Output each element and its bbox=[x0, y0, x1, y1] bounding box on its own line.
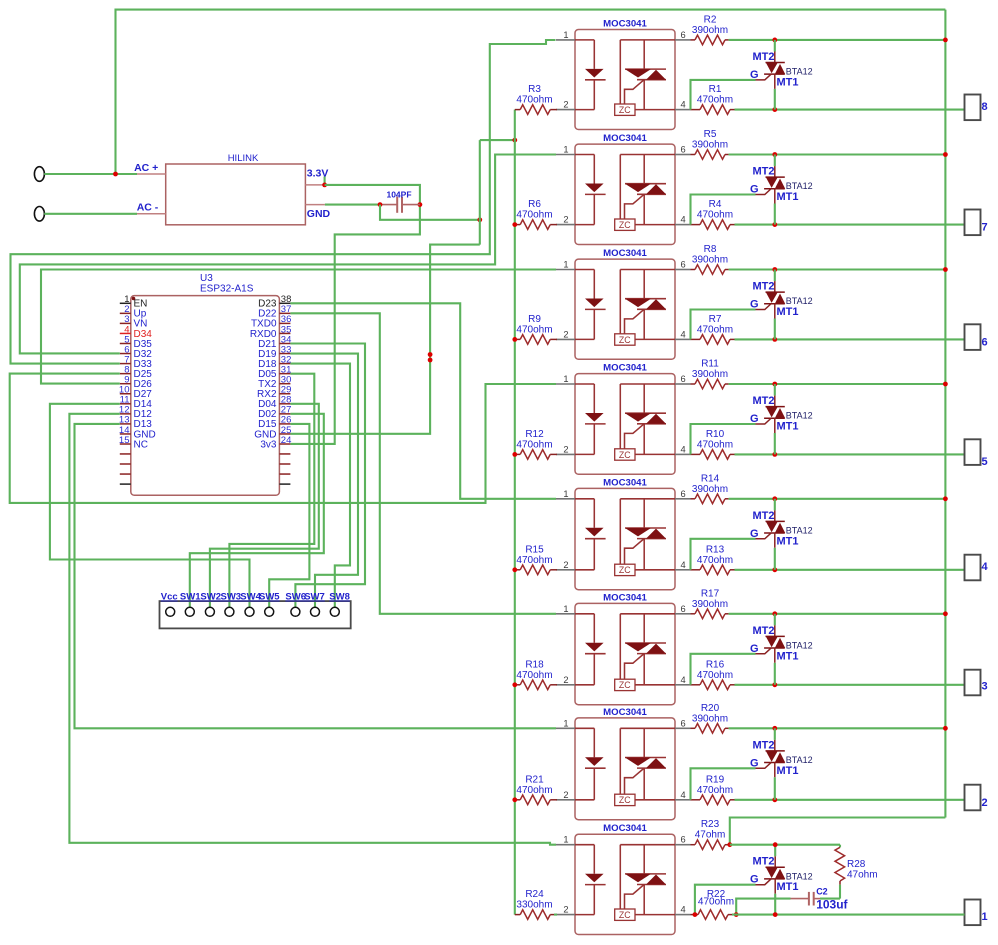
resistor R10 470ohm (channel 5) bbox=[691, 429, 735, 459]
junction GND riser tap bbox=[477, 217, 482, 222]
wire gate to pin4 node channel 1 bbox=[695, 885, 756, 915]
svg-text:ZC: ZC bbox=[619, 450, 631, 460]
junction AC bus tap (channel 4) bbox=[943, 496, 948, 501]
pin 13 D13 bbox=[120, 423, 131, 425]
svg-text:G: G bbox=[750, 528, 759, 540]
svg-text:G: G bbox=[750, 69, 759, 81]
triac Q8 BTA12 (channel 8) bbox=[750, 40, 813, 110]
svg-text:MOC3041: MOC3041 bbox=[603, 823, 647, 834]
junction AC+ node bbox=[113, 172, 118, 177]
svg-text:MT1: MT1 bbox=[777, 306, 799, 318]
svg-text:470ohm: 470ohm bbox=[697, 210, 733, 221]
resistor R17 390ohm (channel 3) bbox=[691, 588, 729, 618]
wire AC+ input to HILINK bbox=[44, 173, 137, 175]
wire net D22 (pin37 to channel 3) bbox=[290, 313, 556, 613]
wire gate to pin4 node (channel 3) bbox=[691, 654, 756, 685]
wire gate to pin4 node (channel 4) bbox=[691, 539, 756, 570]
svg-text:MT2: MT2 bbox=[753, 856, 775, 868]
wire gate to pin4 node (channel 7) bbox=[691, 195, 756, 225]
wire net D02 (pin27 to SW1) bbox=[190, 414, 324, 608]
junction GND bus tap (channel 2) bbox=[512, 797, 517, 802]
svg-text:470ohm: 470ohm bbox=[516, 95, 552, 106]
resistor R22 470ohm (channel 1) bbox=[691, 889, 735, 919]
svg-text:R12: R12 bbox=[525, 429, 544, 440]
svg-text:470ohm: 470ohm bbox=[516, 324, 552, 335]
svg-text:ZC: ZC bbox=[619, 795, 631, 805]
junction GND bus tap (channel 5) bbox=[512, 452, 517, 457]
pin 37 D22 bbox=[279, 312, 290, 314]
pin 26 D15 bbox=[279, 423, 290, 425]
svg-text:4: 4 bbox=[681, 329, 686, 339]
pin 34 D21 bbox=[279, 343, 290, 345]
svg-text:R1: R1 bbox=[709, 84, 722, 95]
svg-text:6: 6 bbox=[681, 489, 686, 499]
svg-text:330ohm: 330ohm bbox=[516, 900, 552, 911]
resistor R28 47ohm (snubber) bbox=[835, 845, 878, 899]
svg-text:MOC3041: MOC3041 bbox=[603, 592, 647, 603]
svg-text:BTA12: BTA12 bbox=[786, 181, 813, 191]
triac Q7 BTA12 (channel 7) bbox=[750, 155, 813, 225]
svg-text:MT1: MT1 bbox=[777, 535, 799, 547]
pin 8 D25 bbox=[120, 373, 131, 375]
svg-text:1: 1 bbox=[563, 374, 568, 384]
svg-text:4: 4 bbox=[681, 790, 686, 800]
svg-text:R10: R10 bbox=[706, 429, 725, 440]
wire GND bus (left vertical) bbox=[514, 110, 516, 915]
output connector J2 bbox=[965, 785, 988, 811]
svg-text:AC +: AC + bbox=[134, 162, 158, 174]
svg-text:5: 5 bbox=[982, 456, 988, 468]
output connector J8 bbox=[965, 95, 988, 121]
svg-text:470ohm: 470ohm bbox=[516, 439, 552, 450]
wire net D13 (pin13 to channel 2) bbox=[75, 424, 557, 728]
wire gate to pin4 node (channel 6) bbox=[691, 310, 756, 340]
svg-text:2: 2 bbox=[563, 675, 568, 685]
svg-text:R21: R21 bbox=[525, 774, 544, 785]
pin 25 GND bbox=[279, 433, 290, 435]
wire pin4 row to output (channel 6) bbox=[735, 338, 965, 340]
resistor R8 390ohm (channel 6) bbox=[691, 244, 729, 274]
svg-text:2: 2 bbox=[563, 790, 568, 800]
junction MT2 node (channel 2) bbox=[772, 726, 777, 731]
svg-text:R18: R18 bbox=[525, 659, 544, 670]
svg-text:470ohm: 470ohm bbox=[697, 670, 733, 681]
svg-text:G: G bbox=[750, 757, 759, 769]
node SW4 bbox=[245, 607, 254, 616]
svg-text:4: 4 bbox=[681, 675, 686, 685]
svg-text:6: 6 bbox=[681, 604, 686, 614]
svg-text:SW7: SW7 bbox=[304, 592, 325, 603]
junction GND bus tap (channel 6) bbox=[512, 337, 517, 342]
svg-text:MT2: MT2 bbox=[753, 625, 775, 637]
svg-text:MT2: MT2 bbox=[753, 395, 775, 407]
wire MOC pin6 row to AC bus (channel 6) bbox=[729, 268, 946, 270]
input connector P1 (AC line) bbox=[34, 167, 44, 182]
pin 27 D02 bbox=[279, 413, 290, 415]
wire net D18 (pin32 to SW8) bbox=[290, 364, 350, 608]
svg-text:103uf: 103uf bbox=[816, 898, 848, 912]
svg-text:1: 1 bbox=[563, 260, 568, 270]
svg-text:R16: R16 bbox=[706, 659, 725, 670]
svg-text:U3: U3 bbox=[200, 273, 213, 284]
svg-text:1: 1 bbox=[563, 604, 568, 614]
output connector J3 bbox=[965, 670, 988, 696]
svg-text:MT1: MT1 bbox=[777, 765, 799, 777]
svg-text:4: 4 bbox=[681, 100, 686, 110]
svg-text:R2: R2 bbox=[704, 14, 717, 25]
resistor R7 470ohm (channel 6) bbox=[691, 314, 735, 344]
junction MT1 node (channel 4) bbox=[772, 567, 777, 572]
junction GND bus tap (channel 3) bbox=[512, 682, 517, 687]
junction GND bus tap (channel 4) bbox=[512, 567, 517, 572]
svg-text:R8: R8 bbox=[704, 244, 717, 255]
junction AC bus tap (channel 3) bbox=[943, 611, 948, 616]
junction GND bus tap (channel 7) bbox=[512, 222, 517, 227]
svg-text:6: 6 bbox=[681, 835, 686, 845]
junction 3.3V output bbox=[322, 183, 327, 188]
svg-text:MT1: MT1 bbox=[777, 650, 799, 662]
svg-text:6: 6 bbox=[681, 145, 686, 155]
svg-text:R15: R15 bbox=[525, 544, 544, 555]
pin 3 VN bbox=[120, 322, 131, 324]
junction capacitor right node bbox=[418, 202, 423, 207]
wire gate to pin4 node (channel 8) bbox=[691, 80, 756, 110]
svg-text:G: G bbox=[750, 413, 759, 425]
pin 32 D18 bbox=[279, 363, 290, 365]
unused pin stub right bbox=[279, 473, 290, 475]
svg-text:6: 6 bbox=[681, 374, 686, 384]
pin 1 EN bbox=[120, 302, 131, 304]
svg-text:6: 6 bbox=[681, 30, 686, 40]
svg-text:390ohm: 390ohm bbox=[692, 369, 728, 380]
svg-text:BTA12: BTA12 bbox=[786, 296, 813, 306]
pin 4 D34 bbox=[120, 332, 131, 334]
node SW2 bbox=[205, 607, 214, 616]
wire net D32 (pin6 to channel 7) bbox=[20, 155, 556, 354]
svg-text:6: 6 bbox=[982, 336, 988, 348]
node SW3 bbox=[225, 607, 234, 616]
junction MT2 node (channel 3) bbox=[772, 611, 777, 616]
svg-text:470ohm: 470ohm bbox=[516, 670, 552, 681]
pin 33 D19 bbox=[279, 353, 290, 355]
node SW8 bbox=[330, 607, 339, 616]
svg-text:SW5: SW5 bbox=[259, 592, 280, 603]
svg-text:470ohm: 470ohm bbox=[697, 324, 733, 335]
optocoupler U6 MOC3041 (channel 6) bbox=[556, 248, 691, 359]
svg-text:1: 1 bbox=[563, 30, 568, 40]
svg-text:BTA12: BTA12 bbox=[786, 526, 813, 536]
svg-text:3v3: 3v3 bbox=[260, 439, 277, 450]
triac Q3 BTA12 (channel 3) bbox=[750, 614, 813, 685]
wire pin4 row to output (channel 4) bbox=[735, 569, 965, 571]
svg-text:390ohm: 390ohm bbox=[692, 255, 728, 266]
junction GND bus feed bbox=[512, 138, 517, 143]
junction MT1 node (channel 8) bbox=[772, 107, 777, 112]
unused pin stub right bbox=[279, 453, 290, 455]
wire gate to pin4 node (channel 2) bbox=[691, 768, 756, 800]
wire AC+ up to top rail bbox=[116, 10, 946, 174]
pin 15 NC bbox=[120, 443, 131, 445]
output connector J1 bbox=[965, 900, 988, 926]
svg-text:2: 2 bbox=[563, 444, 568, 454]
svg-text:MT1: MT1 bbox=[777, 881, 799, 893]
pin 7 D33 bbox=[120, 363, 131, 365]
junction gate tap channel 1 bbox=[693, 912, 698, 917]
svg-text:R28: R28 bbox=[847, 859, 866, 870]
unused pin stub left bbox=[120, 453, 131, 455]
wire AC bus jog to channel 1 bbox=[730, 818, 946, 845]
wire channel1 pin6 row bbox=[730, 844, 840, 846]
pin 12 D12 bbox=[120, 413, 131, 415]
wire net D23 (pin38 to channel 4) bbox=[290, 303, 556, 499]
optocoupler U4 MOC3041 (channel 4) bbox=[556, 477, 691, 589]
pin 10 D27 bbox=[120, 393, 131, 395]
svg-text:470ohm: 470ohm bbox=[516, 785, 552, 796]
pin 36 TXD0 bbox=[279, 322, 290, 324]
svg-text:470ohm: 470ohm bbox=[697, 785, 733, 796]
svg-text:470ohm: 470ohm bbox=[697, 95, 733, 106]
wire pin4 row to output (channel 3) bbox=[735, 684, 965, 686]
optocoupler U8 MOC3041 (channel 8) bbox=[556, 18, 691, 129]
junction MT1 node (channel 7) bbox=[772, 222, 777, 227]
pin 11 D14 bbox=[120, 403, 131, 405]
output connector J7 bbox=[965, 210, 988, 236]
pin 5 D35 bbox=[120, 343, 131, 345]
svg-text:4: 4 bbox=[681, 560, 686, 570]
output connector J5 bbox=[965, 439, 988, 468]
pin 30 TX2 bbox=[279, 383, 290, 385]
svg-text:R14: R14 bbox=[701, 473, 720, 484]
svg-text:MT1: MT1 bbox=[777, 191, 799, 203]
optocoupler U2 MOC3041 (channel 2) bbox=[556, 707, 691, 820]
wire 3.3V to capacitor right bbox=[325, 185, 420, 205]
switch connector SW header bbox=[160, 592, 351, 629]
junction GND segment joint B bbox=[428, 358, 433, 363]
svg-text:ZC: ZC bbox=[619, 105, 631, 115]
svg-text:2: 2 bbox=[982, 797, 988, 809]
junction C2 tap bbox=[734, 912, 739, 917]
wire net D26 (pin9 to channel 6) bbox=[41, 270, 556, 384]
resistor R20 390ohm (channel 2) bbox=[691, 703, 729, 733]
wire MOC pin6 row to AC bus (channel 7) bbox=[729, 153, 946, 155]
svg-text:R19: R19 bbox=[706, 774, 725, 785]
wire pin4 row to output 1 bbox=[732, 914, 965, 916]
resistor R9 470ohm (channel 6) bbox=[515, 314, 557, 344]
svg-text:BTA12: BTA12 bbox=[786, 411, 813, 421]
svg-text:MT1: MT1 bbox=[777, 421, 799, 433]
pin 24 3v3 bbox=[279, 443, 290, 445]
junction AC bus tap (channel 2) bbox=[943, 726, 948, 731]
svg-text:BTA12: BTA12 bbox=[786, 641, 813, 651]
junction capacitor left node bbox=[378, 202, 383, 207]
wire GND riser to GND bus bbox=[480, 139, 515, 141]
unused pin stub left bbox=[120, 483, 131, 485]
resistor R14 390ohm (channel 4) bbox=[691, 473, 729, 503]
pin 14 GND bbox=[120, 433, 131, 435]
junction AC bus tap (channel 7) bbox=[943, 152, 948, 157]
wire net D05 (pin31 to SW3) bbox=[229, 374, 314, 608]
unused pin stub left bbox=[120, 463, 131, 465]
svg-text:MT1: MT1 bbox=[777, 76, 799, 88]
svg-text:390ohm: 390ohm bbox=[692, 484, 728, 495]
svg-text:4: 4 bbox=[681, 215, 686, 225]
svg-text:R7: R7 bbox=[709, 314, 722, 325]
svg-text:390ohm: 390ohm bbox=[692, 140, 728, 151]
junction MT2 node (channel 5) bbox=[772, 382, 777, 387]
svg-text:1: 1 bbox=[563, 145, 568, 155]
microcontroller U3 ESP32-A1S bbox=[119, 273, 291, 495]
svg-text:MT2: MT2 bbox=[753, 739, 775, 751]
svg-text:BTA12: BTA12 bbox=[786, 67, 813, 77]
svg-text:MOC3041: MOC3041 bbox=[603, 363, 647, 374]
wire AC bus (right vertical) bbox=[944, 10, 946, 818]
svg-text:MOC3041: MOC3041 bbox=[603, 707, 647, 718]
resistor R19 470ohm (channel 2) bbox=[691, 774, 735, 804]
resistor R2 390ohm (channel 8) bbox=[691, 14, 729, 44]
svg-text:390ohm: 390ohm bbox=[692, 713, 728, 724]
junction MT1 node channel 1 bbox=[773, 912, 778, 917]
svg-text:G: G bbox=[750, 184, 759, 196]
wire C2 to pin4 node bbox=[736, 899, 790, 915]
wire net D14 (pin11 to SW4) bbox=[50, 404, 250, 608]
resistor R24 330ohm (channel 1) bbox=[515, 889, 557, 919]
svg-text:4: 4 bbox=[982, 561, 989, 573]
svg-text:4: 4 bbox=[681, 905, 686, 915]
pin 28 D04 bbox=[279, 403, 290, 405]
svg-text:2: 2 bbox=[563, 100, 568, 110]
wire net D19 (pin33 to SW7) bbox=[290, 354, 358, 608]
wire MOC pin6 row to AC bus (channel 4) bbox=[729, 498, 946, 500]
svg-text:470ohm: 470ohm bbox=[697, 555, 733, 566]
resistor R13 470ohm (channel 4) bbox=[691, 544, 735, 574]
junction AC bus tap (channel 8) bbox=[943, 38, 948, 43]
svg-text:8: 8 bbox=[982, 101, 988, 113]
svg-text:R6: R6 bbox=[528, 199, 541, 210]
wire AC- input to HILINK bbox=[44, 213, 137, 215]
capacitor C1 104PF bbox=[380, 190, 420, 213]
junction GND segment joint A bbox=[428, 352, 433, 357]
unused pin stub right bbox=[279, 483, 290, 485]
svg-text:NC: NC bbox=[134, 439, 148, 450]
svg-text:R20: R20 bbox=[701, 703, 720, 714]
svg-text:MOC3041: MOC3041 bbox=[603, 477, 647, 488]
pin 6 D32 bbox=[120, 353, 131, 355]
junction MT1 node (channel 6) bbox=[772, 337, 777, 342]
svg-text:MT2: MT2 bbox=[753, 51, 775, 63]
wire GND riser bbox=[479, 140, 481, 245]
wire net D33 (pin7 to channel 8) bbox=[11, 40, 556, 364]
svg-text:SW8: SW8 bbox=[329, 592, 350, 603]
resistor R11 390ohm (channel 5) bbox=[691, 359, 729, 389]
wire net D12 (pin12 to channel 1) bbox=[69, 414, 556, 845]
svg-text:MOC3041: MOC3041 bbox=[603, 248, 647, 259]
resistor R23 47ohm (channel 1) bbox=[691, 819, 730, 849]
triac Q5 BTA12 (channel 5) bbox=[750, 384, 813, 454]
svg-text:1: 1 bbox=[563, 718, 568, 728]
resistor R3 470ohm (channel 8) bbox=[515, 84, 557, 114]
svg-text:2: 2 bbox=[563, 905, 568, 915]
svg-text:R3: R3 bbox=[528, 84, 541, 95]
svg-text:G: G bbox=[750, 643, 759, 655]
node SW7 bbox=[311, 607, 320, 616]
svg-text:GND: GND bbox=[307, 208, 331, 220]
unused pin stub left bbox=[120, 473, 131, 475]
svg-text:2: 2 bbox=[563, 329, 568, 339]
triac Q2 BTA12 (channel 2) bbox=[750, 728, 813, 800]
node SW5 bbox=[265, 607, 274, 616]
wire net D15 (pin26 to SW5) bbox=[269, 424, 309, 608]
svg-text:C2: C2 bbox=[816, 887, 828, 897]
svg-text:470ohm: 470ohm bbox=[697, 439, 733, 450]
node Vcc bbox=[166, 607, 175, 616]
wire 3.3V down to ESP32 3v3 pin bbox=[290, 205, 420, 444]
wire MOC pin6 row to AC bus (channel 2) bbox=[729, 727, 946, 729]
svg-text:SW3: SW3 bbox=[221, 592, 242, 603]
svg-text:R23: R23 bbox=[701, 819, 720, 830]
junction AC bus tap (channel 6) bbox=[943, 267, 948, 272]
svg-text:6: 6 bbox=[681, 260, 686, 270]
svg-text:MT2: MT2 bbox=[753, 281, 775, 293]
resistor R21 470ohm (channel 2) bbox=[515, 774, 557, 804]
svg-text:MT2: MT2 bbox=[753, 166, 775, 178]
wire MOC pin6 row to AC bus (channel 8) bbox=[729, 39, 946, 41]
svg-text:ZC: ZC bbox=[619, 680, 631, 690]
wire pin4 row to output (channel 2) bbox=[735, 799, 965, 801]
node SW6 bbox=[291, 607, 300, 616]
svg-text:1: 1 bbox=[563, 835, 568, 845]
pin 9 D26 bbox=[120, 383, 131, 385]
svg-text:390ohm: 390ohm bbox=[692, 25, 728, 36]
resistor R1 470ohm (channel 8) bbox=[691, 84, 735, 114]
svg-text:390ohm: 390ohm bbox=[692, 599, 728, 610]
svg-text:470ohm: 470ohm bbox=[698, 897, 734, 908]
svg-text:4: 4 bbox=[681, 444, 686, 454]
svg-text:HILINK: HILINK bbox=[228, 153, 259, 164]
pin 35 RXD0 bbox=[279, 332, 290, 334]
svg-text:ZC: ZC bbox=[619, 565, 631, 575]
svg-text:R4: R4 bbox=[709, 199, 722, 210]
wire gate to pin4 node (channel 5) bbox=[691, 424, 756, 454]
junction AC bus tap (channel 5) bbox=[943, 382, 948, 387]
optocoupler U1 MOC3041 (channel 1) bbox=[556, 823, 691, 934]
capacitor C2 103uf (snubber) bbox=[791, 887, 849, 912]
junction MT1 node (channel 5) bbox=[772, 452, 777, 457]
svg-text:1: 1 bbox=[563, 489, 568, 499]
svg-text:2: 2 bbox=[563, 215, 568, 225]
svg-text:ZC: ZC bbox=[619, 910, 631, 920]
resistor R16 470ohm (channel 3) bbox=[691, 659, 735, 689]
junction MT2 node (channel 4) bbox=[772, 496, 777, 501]
svg-text:3: 3 bbox=[982, 681, 988, 693]
node SW1 bbox=[185, 607, 194, 616]
svg-text:ZC: ZC bbox=[619, 335, 631, 345]
svg-text:470ohm: 470ohm bbox=[516, 555, 552, 566]
svg-text:R5: R5 bbox=[704, 129, 717, 140]
resistor R15 470ohm (channel 4) bbox=[515, 544, 557, 574]
triac Q6 BTA12 (channel 6) bbox=[750, 270, 813, 340]
wire HILINK GND to capacitor left bbox=[325, 204, 380, 206]
triac Q1 BTA12 (channel 1) bbox=[750, 845, 813, 915]
svg-text:BTA12: BTA12 bbox=[786, 871, 813, 881]
wire GND run to bus riser bbox=[380, 205, 480, 220]
wire MOC pin6 row to AC bus (channel 3) bbox=[729, 613, 946, 615]
svg-text:Vcc: Vcc bbox=[161, 592, 178, 603]
wire GND to ESP32 GND pin bbox=[290, 245, 479, 434]
output connector J6 bbox=[965, 324, 988, 350]
svg-text:15: 15 bbox=[119, 435, 130, 446]
svg-text:1: 1 bbox=[982, 911, 988, 923]
resistor R6 470ohm (channel 7) bbox=[515, 199, 557, 229]
